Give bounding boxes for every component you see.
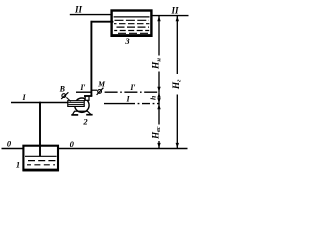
tank 3 bottom wall xyxy=(111,34,153,37)
tank 3 (upper reservoir) xyxy=(112,11,152,36)
label Hvs (rotated) xyxy=(150,126,162,140)
svg-text:I′: I′ xyxy=(129,83,135,92)
suction pipe vertical drop xyxy=(39,102,41,156)
tank 1 bottom wall xyxy=(23,169,59,172)
svg-text:h: h xyxy=(148,96,157,100)
tank 1 (lower reservoir) xyxy=(23,146,58,171)
pump feet / base xyxy=(71,111,92,115)
manometer M stub line xyxy=(92,89,97,91)
label Hg (rotated) xyxy=(172,79,183,90)
dimension line Hn (x=159, II to I') xyxy=(158,16,160,93)
svg-text:0: 0 xyxy=(70,139,75,149)
dimension line h (x=159, I' to I) xyxy=(158,92,160,103)
arrowheads Hn xyxy=(157,16,160,21)
svg-text:M: M xyxy=(97,80,106,89)
svg-text:II: II xyxy=(74,5,83,15)
section line I-I right (dash-dot) xyxy=(104,103,160,105)
svg-text:2: 2 xyxy=(82,117,88,127)
pump volute spiral xyxy=(84,97,85,101)
label h (rotated) xyxy=(148,96,157,100)
section line I'-I' right (dash-dot) xyxy=(105,91,160,93)
svg-text:3: 3 xyxy=(124,36,130,46)
water in tank 1 (surface line + hatching) xyxy=(25,156,57,165)
section line II-II right segment xyxy=(152,15,189,17)
pump discharge nozzle xyxy=(84,96,92,100)
pump 2 (centrifugal pump casing) xyxy=(75,98,89,112)
pump inlet cylinder xyxy=(68,101,84,107)
discharge riser pipe xyxy=(90,21,92,96)
datum line 0-0 right segment xyxy=(59,148,188,150)
dimension line Hg (x=177, II to 0-0) xyxy=(176,16,178,149)
arrowheads Hg xyxy=(176,16,179,21)
arrowheads h xyxy=(157,93,160,98)
section I'-I' left tick xyxy=(76,91,91,93)
manometer M (gauge symbol) xyxy=(97,88,104,95)
suction pipe horizontal + section I left tick xyxy=(11,102,68,104)
svg-text:II: II xyxy=(170,6,179,16)
datum line 0-0 left segment xyxy=(2,148,23,150)
suction pipe end inside tank 1 xyxy=(39,145,41,156)
svg-text:1: 1 xyxy=(16,159,20,169)
water in tank 3 (surface line + hatching) xyxy=(114,17,150,33)
discharge pipe horizontal run into tank 3 xyxy=(91,21,114,23)
svg-text:I′: I′ xyxy=(79,83,85,92)
svg-text:В: В xyxy=(59,84,66,93)
section line II-II left segment xyxy=(70,14,111,16)
vacuum gauge B (symbol) xyxy=(61,92,71,101)
arrowheads Hvs xyxy=(157,104,160,109)
dimension line Hvs (x=159, I to 0-0) xyxy=(158,104,160,149)
label Hn (rotated) xyxy=(152,58,163,70)
